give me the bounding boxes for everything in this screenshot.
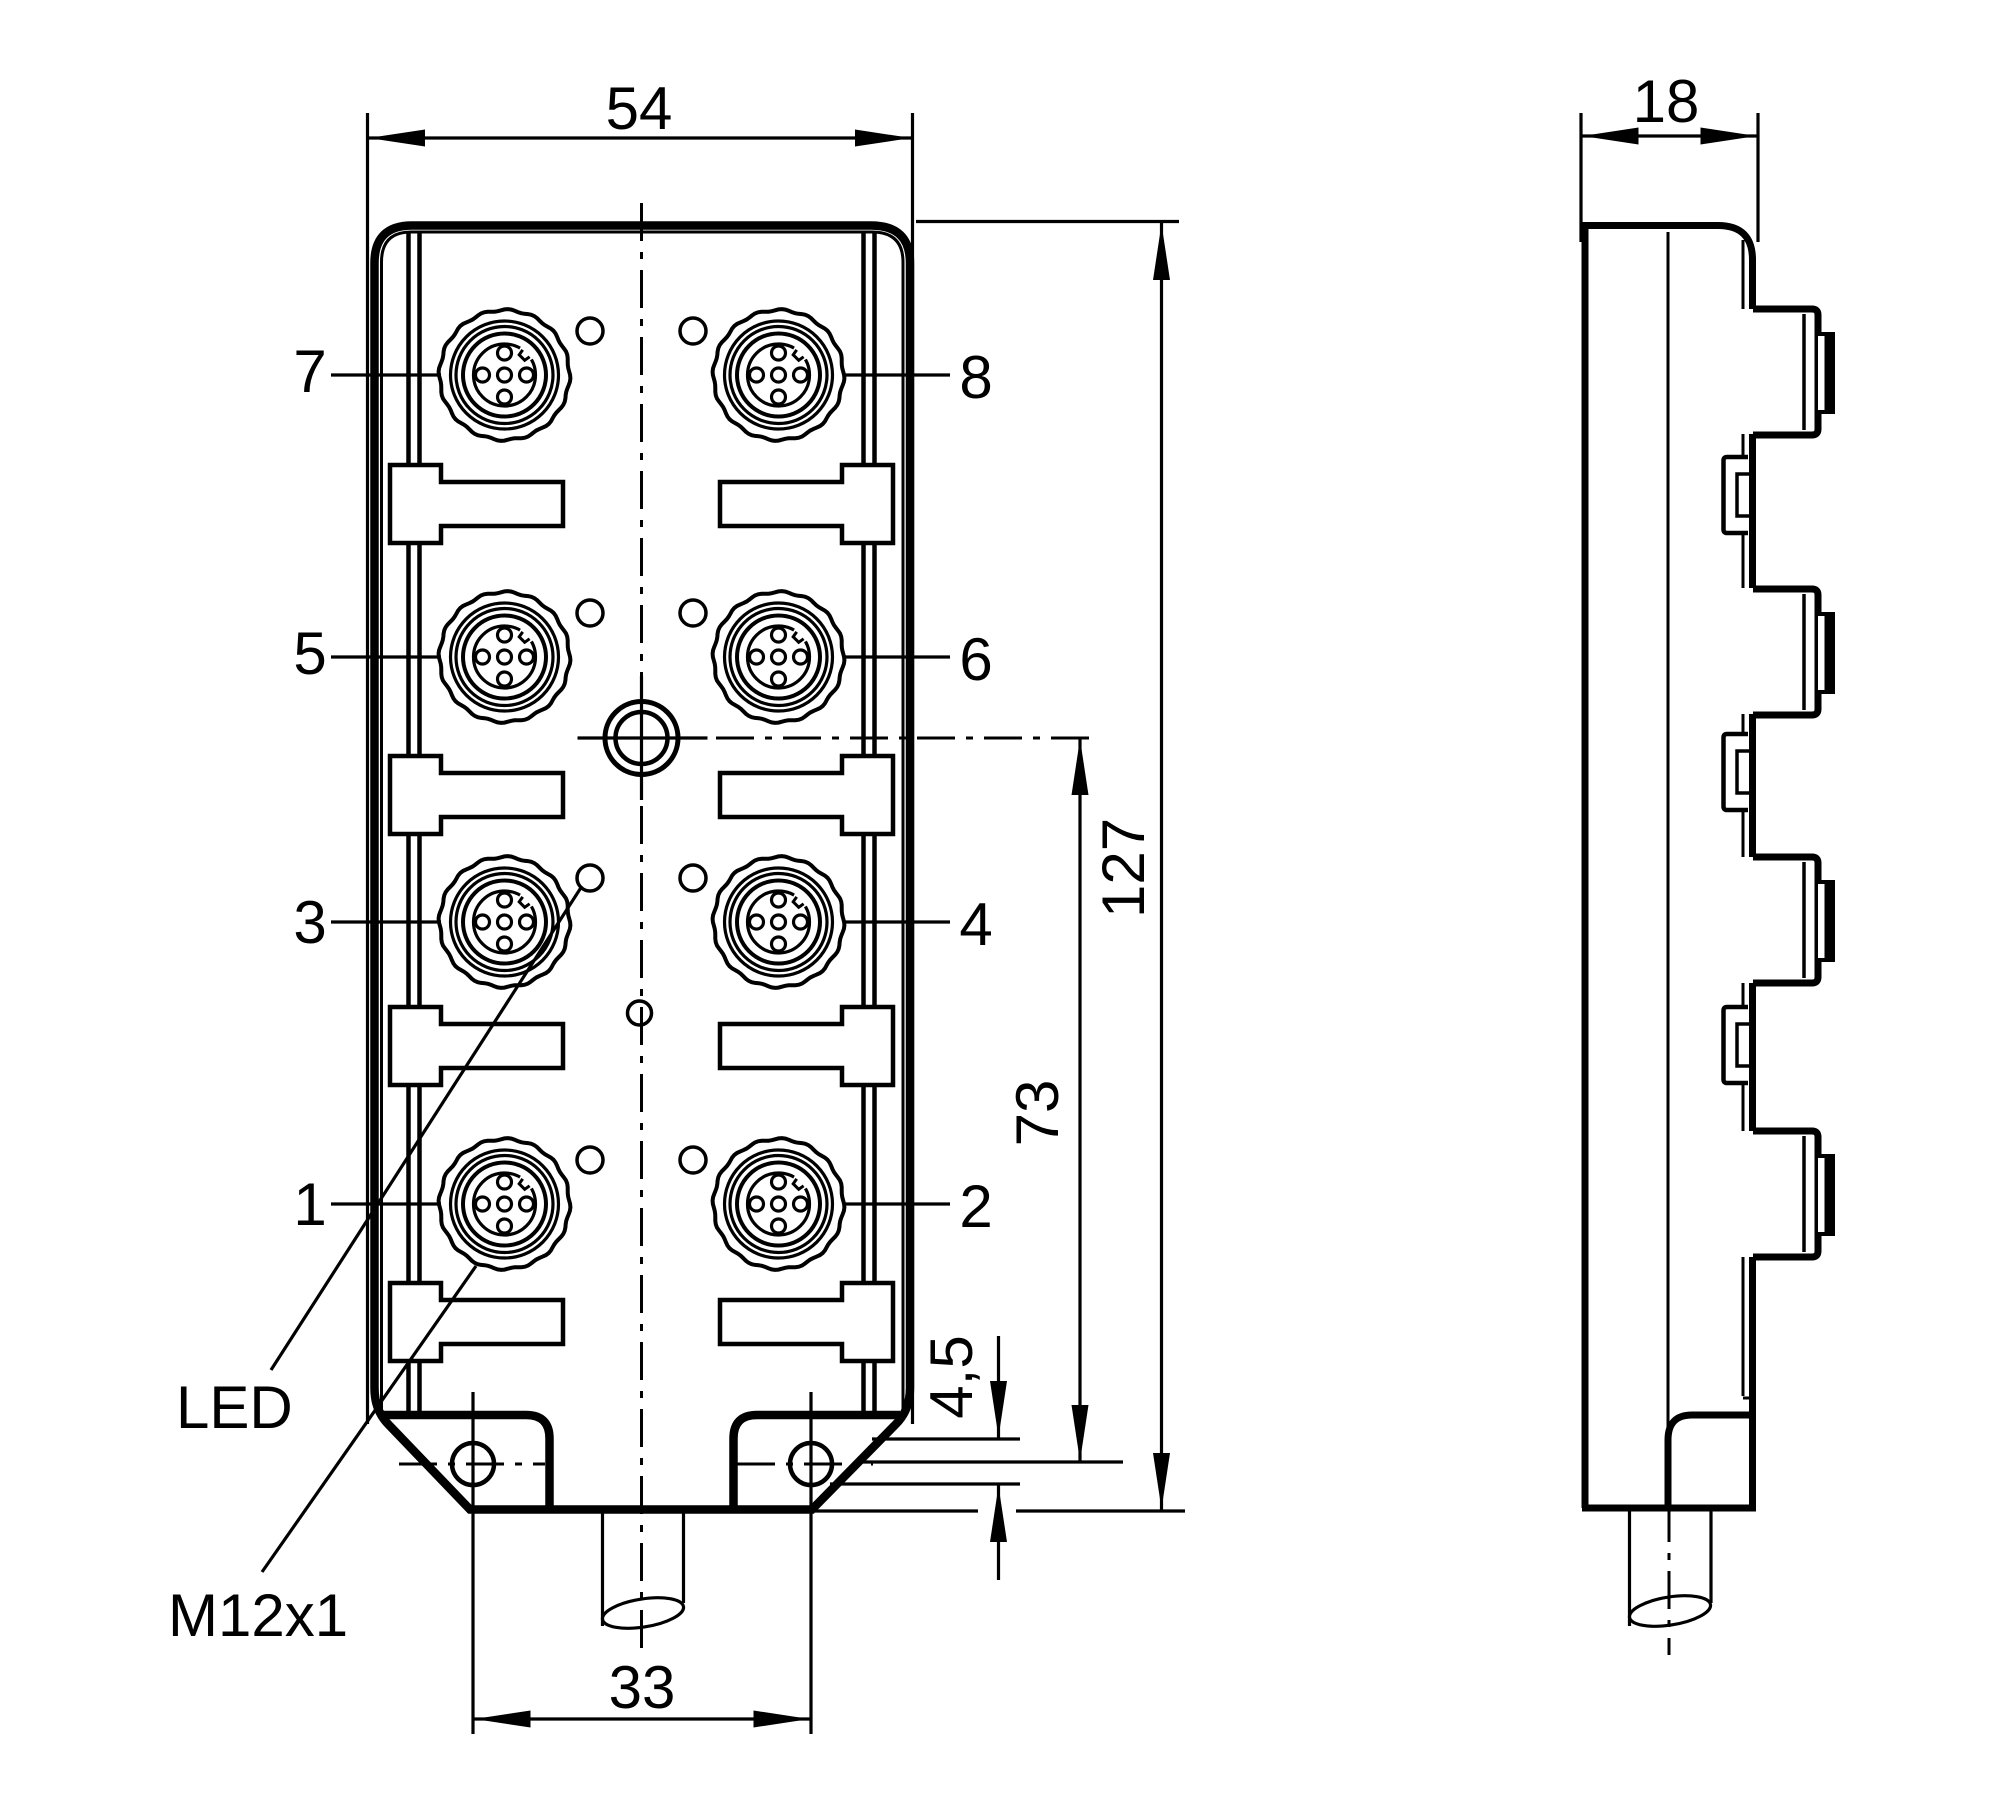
- side view body bottom edge: [1582, 1505, 1756, 1512]
- svg-text:127: 127: [1090, 818, 1157, 918]
- M12 connector port 8: [713, 309, 845, 441]
- dimension 54 extension line right: [911, 113, 914, 1424]
- central fixing screw: [578, 676, 708, 800]
- front view cable outlet: [600, 1512, 685, 1633]
- LED port 2: [680, 1147, 706, 1173]
- svg-text:73: 73: [1004, 1080, 1071, 1147]
- flange bottom extension line: [830, 1482, 1020, 1485]
- svg-text:M12x1: M12x1: [168, 1582, 348, 1649]
- side view middle parting line: [1667, 232, 1670, 1438]
- M12 connector port 2: [713, 1138, 845, 1270]
- svg-text:6: 6: [959, 626, 992, 693]
- side view front face line segments: [1743, 240, 1753, 1398]
- LED label and leader: [176, 886, 582, 1441]
- LED port 6: [680, 600, 706, 626]
- left mounting slot cutout row 3 (ports 3-4): [390, 1007, 563, 1085]
- port 4 label and leader: [843, 891, 993, 958]
- front view body outline: [375, 226, 911, 1510]
- front view vertical centerline: [640, 203, 643, 1652]
- right mounting screw centerline: [737, 1463, 873, 1466]
- M12 connector port 4: [713, 856, 845, 988]
- svg-text:3: 3: [293, 889, 326, 956]
- LED port 5: [577, 600, 603, 626]
- port 6 label and leader: [843, 626, 993, 693]
- port 8 label and leader: [843, 344, 993, 411]
- small center hole: [628, 1001, 652, 1025]
- left mounting ear: [383, 1415, 550, 1510]
- svg-text:4,5: 4,5: [918, 1335, 985, 1418]
- svg-text:2: 2: [959, 1173, 992, 1240]
- dimension 33 (mounting hole spacing): [473, 1654, 811, 1728]
- M12 connector port 3: [439, 856, 571, 988]
- svg-text:8: 8: [959, 344, 992, 411]
- dimension 18 (depth): [1581, 68, 1758, 145]
- LED port 4: [680, 865, 706, 891]
- left groove line A: [406, 232, 411, 1413]
- side view bottom step outline: [1668, 1415, 1751, 1508]
- left mounting slot cutout row 4 (ports 1-2): [390, 1283, 563, 1361]
- svg-text:4: 4: [959, 891, 992, 958]
- mounting screw axis extension line: [858, 1460, 1123, 1463]
- dimension 127 top extension line: [916, 220, 1179, 223]
- side view latch tab 2: [1724, 734, 1751, 810]
- svg-text:33: 33: [609, 1654, 676, 1721]
- M12 connector port 7: [439, 309, 571, 441]
- M12 connector port 1: [439, 1138, 571, 1270]
- LED port 7: [577, 318, 603, 344]
- dimension 54 (width): [368, 75, 913, 147]
- right mounting screw hole: [790, 1443, 832, 1485]
- side view cable centerline: [1668, 1504, 1671, 1655]
- side view cable outlet: [1627, 1508, 1712, 1631]
- dimension 33 extension line left: [471, 1392, 474, 1734]
- svg-text:7: 7: [293, 338, 326, 405]
- right groove line A: [861, 232, 866, 1413]
- side view latch tab 1: [1724, 457, 1751, 533]
- central screw horizontal centerline: [716, 737, 1100, 740]
- left mounting slot cutout row 1 (ports 7-8): [390, 465, 563, 543]
- LED port 8: [680, 318, 706, 344]
- port 7 label and leader: [293, 338, 441, 405]
- left mounting slot cutout row 2 (ports 5-6): [390, 756, 563, 834]
- M12x1 thread label and leader: [168, 1266, 476, 1649]
- left mounting screw centerline: [399, 1463, 545, 1466]
- port 1 label and leader: [293, 1171, 441, 1238]
- right mounting slot cutout row 4 (ports 1-2): [720, 1283, 893, 1361]
- right mounting slot cutout row 2 (ports 5-6): [720, 756, 893, 834]
- side view connector row 1: [1753, 309, 1833, 435]
- right mounting slot cutout row 3 (ports 3-4): [720, 1007, 893, 1085]
- port 2 label and leader: [843, 1173, 993, 1240]
- dimension 4,5 (mounting hole offset): [918, 1335, 1007, 1580]
- port 3 label and leader: [293, 889, 441, 956]
- dimension 127 bottom extension line: [1016, 1509, 1185, 1512]
- side view connector row 4: [1753, 1131, 1833, 1257]
- dimension 54 extension line left: [366, 113, 369, 1424]
- dimension 73 (screw to mounting hole): [1004, 738, 1089, 1462]
- svg-text:54: 54: [606, 75, 673, 142]
- right mounting slot cutout row 1 (ports 7-8): [720, 465, 893, 543]
- side view body right edge segments: [1749, 258, 1756, 1508]
- LED port 3: [577, 865, 603, 891]
- dimension 127 (height): [1090, 223, 1170, 1510]
- side view connector row 3: [1753, 857, 1833, 983]
- svg-text:18: 18: [1633, 68, 1700, 135]
- left mounting screw hole: [452, 1443, 494, 1485]
- M12 connector port 6: [713, 591, 845, 723]
- side view connector row 2: [1753, 589, 1833, 715]
- svg-text:5: 5: [293, 620, 326, 687]
- side view body left edge: [1582, 222, 1589, 1508]
- dimension 33 extension line right: [809, 1392, 812, 1734]
- body bottom edge extension line: [815, 1509, 978, 1512]
- svg-text:1: 1: [293, 1171, 326, 1238]
- side view latch tab 3: [1724, 1007, 1751, 1083]
- LED port 1: [577, 1147, 603, 1173]
- right mounting ear: [734, 1415, 901, 1510]
- flange top extension line: [872, 1437, 1020, 1440]
- left groove line B: [417, 232, 422, 1413]
- M12 connector port 5: [439, 591, 571, 723]
- right groove line B: [872, 232, 877, 1413]
- port 5 label and leader: [293, 620, 441, 687]
- front face inner outline: [382, 232, 904, 1410]
- dimension 18 extension line left: [1579, 113, 1582, 242]
- svg-text:LED: LED: [176, 1374, 293, 1441]
- side view body top edge: [1582, 226, 1753, 261]
- dimension 18 extension line right: [1756, 113, 1759, 242]
